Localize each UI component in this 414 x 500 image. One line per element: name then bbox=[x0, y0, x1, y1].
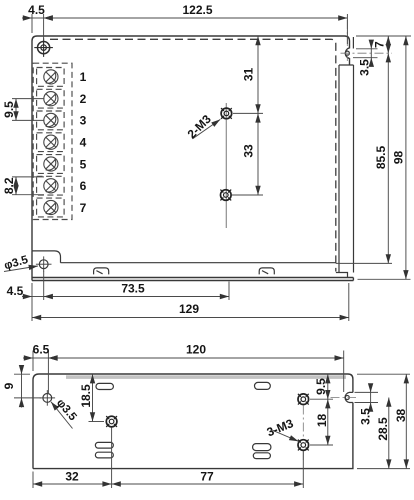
dim 3.5 side extensions bbox=[355, 392, 379, 402]
bottom edge double line bbox=[32, 278, 353, 281]
dim 18.5 line bbox=[92, 374, 94, 421]
bottom-left hole (phi 3.5) bbox=[36, 256, 52, 272]
bottom-left mounting tab bbox=[32, 251, 61, 263]
vent slot lower-right 1 bbox=[253, 444, 271, 451]
svg-text:98: 98 bbox=[392, 151, 406, 165]
svg-text:7: 7 bbox=[80, 201, 87, 215]
svg-text:9.5: 9.5 bbox=[314, 378, 328, 395]
bottom extensions bbox=[33, 428, 303, 489]
dim 9 extensions bbox=[14, 374, 41, 398]
dim 38 line bbox=[405, 374, 407, 468]
dim 28.5 line bbox=[388, 398, 390, 469]
top view left edge lower segment bbox=[31, 251, 33, 281]
svg-text:33: 33 bbox=[242, 144, 256, 158]
dim 73.5 right extension bbox=[228, 282, 230, 301]
side screw hole left bbox=[106, 416, 117, 427]
svg-text:3.5: 3.5 bbox=[359, 408, 373, 425]
svg-text:4.5: 4.5 bbox=[7, 284, 24, 298]
dim 4.5 bottom line bbox=[32, 296, 44, 298]
top-left screw hole target bbox=[34, 38, 53, 57]
vent slot upper-left bbox=[96, 383, 113, 389]
M3 hole upper bbox=[221, 108, 232, 119]
cover flange right side bbox=[339, 65, 354, 273]
dim 9.5 right extension bbox=[310, 398, 333, 400]
svg-text:4: 4 bbox=[80, 136, 87, 150]
right holes centerline bbox=[302, 406, 304, 461]
vent slot upper-right bbox=[255, 382, 271, 389]
svg-text:3: 3 bbox=[80, 114, 87, 128]
svg-text:73.5: 73.5 bbox=[121, 282, 145, 296]
flange bottom step bbox=[336, 273, 348, 278]
svg-text:7: 7 bbox=[373, 41, 387, 48]
svg-text:9.5: 9.5 bbox=[2, 101, 16, 118]
side left hole (phi 3.5) bbox=[40, 390, 56, 406]
dim 18.5 extension bbox=[89, 421, 105, 423]
svg-text:129: 129 bbox=[179, 302, 199, 316]
dim 9.5 extension lines bbox=[12, 99, 44, 121]
dim 73.5 line bbox=[44, 296, 229, 298]
label 3-M3 leader bbox=[272, 430, 299, 442]
svg-text:6: 6 bbox=[80, 179, 87, 193]
dim 3.5 line outside arrows bbox=[370, 49, 372, 58]
svg-text:1: 1 bbox=[80, 70, 87, 84]
2-M3 hole centerline bbox=[225, 103, 227, 228]
svg-text:18: 18 bbox=[315, 414, 329, 428]
vent slot lower-right 2 bbox=[253, 453, 270, 459]
svg-text:120: 120 bbox=[186, 343, 206, 357]
dim 7 line bbox=[387, 36, 389, 53]
terminal 6 screw circle bbox=[44, 179, 58, 193]
terminal 5 square bbox=[37, 155, 65, 174]
svg-text:9: 9 bbox=[2, 382, 16, 389]
side view outline bbox=[33, 374, 353, 469]
svg-text:2: 2 bbox=[80, 92, 87, 106]
top-right tab hole bbox=[345, 51, 349, 55]
terminal 4 screw circle bbox=[44, 135, 58, 149]
svg-text:38: 38 bbox=[394, 409, 408, 423]
svg-text:6.5: 6.5 bbox=[33, 343, 50, 357]
dim 4.5 top dimension line with outside arrows bbox=[32, 17, 44, 19]
dim 85.5 line bbox=[387, 53, 389, 263]
dim 6.5 extensions bbox=[33, 351, 48, 395]
dim 4.5 bottom extensions bbox=[32, 272, 44, 322]
dim 33 line bbox=[257, 113, 259, 195]
dim 32 line bbox=[33, 483, 112, 485]
svg-text:3.5: 3.5 bbox=[357, 59, 371, 76]
terminal 6 square bbox=[37, 176, 65, 195]
dim 18 line bbox=[327, 399, 329, 445]
svg-text:28.5: 28.5 bbox=[376, 417, 390, 441]
dim 6.5 line bbox=[33, 357, 48, 359]
dim 77 line bbox=[112, 483, 304, 485]
dim 9.5 right line bbox=[327, 374, 329, 399]
right top extension line bbox=[356, 35, 411, 37]
dim 8.2 line bbox=[15, 177, 17, 195]
dim 85.5 bottom extension bbox=[336, 262, 392, 264]
vent slot lower-left 2 bbox=[95, 452, 113, 458]
terminal 2 square bbox=[37, 89, 65, 108]
svg-text:5: 5 bbox=[80, 157, 87, 171]
dim 9 line outside arrows bbox=[21, 374, 23, 398]
terminal block outer dashed body bbox=[33, 63, 72, 219]
terminal 7 screw circle bbox=[44, 200, 58, 214]
svg-text:32: 32 bbox=[65, 470, 79, 484]
bottom fold line bbox=[61, 262, 336, 264]
svg-text:31: 31 bbox=[242, 68, 256, 82]
side screw hole right upper bbox=[298, 394, 309, 405]
side view top edge shadow bbox=[66, 375, 346, 379]
dim 98 bottom extension bbox=[358, 278, 411, 280]
top-right corner notch edge bbox=[352, 37, 354, 49]
dim 38 extensions bbox=[357, 374, 410, 468]
svg-text:122.5: 122.5 bbox=[182, 3, 212, 17]
dim 3.5 side line outside arrows bbox=[370, 392, 372, 402]
terminal 1 screw circle bbox=[44, 70, 58, 84]
dim 129 line bbox=[32, 317, 349, 319]
dim 33 extension bbox=[232, 194, 263, 196]
hidden cover edge (dashed top) bbox=[50, 39, 336, 271]
dim 9.5 line bbox=[15, 99, 17, 121]
dim 122.5 right extension bbox=[346, 14, 348, 44]
svg-text:77: 77 bbox=[200, 470, 214, 484]
vent slot lower-left 1 bbox=[95, 442, 113, 448]
dim 129 right extension bbox=[348, 283, 350, 321]
dim 4.5 top extension lines bbox=[32, 14, 44, 41]
M3 hole lower bbox=[220, 190, 231, 201]
label 2-M3 leader arrow bbox=[193, 119, 221, 138]
bottom louver left bbox=[94, 268, 109, 275]
terminal 3 screw circle bbox=[44, 113, 58, 127]
dim 120 line bbox=[48, 357, 343, 359]
top view chassis outline bbox=[32, 36, 350, 251]
dim 18 extension bbox=[310, 444, 333, 446]
dim 3.5 extension lines bbox=[353, 49, 378, 58]
side screw hole right lower bbox=[298, 440, 309, 451]
dim 31 extension bbox=[233, 112, 263, 114]
svg-text:4.5: 4.5 bbox=[28, 3, 45, 17]
right tab hole centerline bbox=[331, 397, 357, 399]
terminal 1 square bbox=[37, 68, 65, 87]
terminal 3 square bbox=[37, 111, 65, 130]
svg-text:18.5: 18.5 bbox=[79, 384, 93, 408]
dim 122.5 line bbox=[44, 17, 348, 19]
terminal 5 screw circle bbox=[44, 157, 58, 171]
right tab hole bbox=[345, 396, 349, 400]
svg-text:8.2: 8.2 bbox=[2, 177, 16, 194]
terminal 7 square bbox=[37, 198, 65, 217]
top-right tab hole centerlines bbox=[341, 20, 393, 61]
terminal 2 screw circle bbox=[44, 92, 58, 106]
dim 98 line bbox=[405, 36, 407, 279]
dim 120 right extension bbox=[343, 351, 345, 393]
dim 8.2 extension lines bbox=[12, 177, 44, 195]
bottom louver right bbox=[259, 268, 274, 275]
svg-text:85.5: 85.5 bbox=[374, 145, 388, 169]
dim 31 line bbox=[257, 36, 259, 113]
label phi3.5 leader bbox=[4, 266, 38, 272]
label phi3.5 side leader bbox=[51, 402, 73, 429]
right tab slot bbox=[345, 392, 353, 402]
terminal 4 square bbox=[37, 133, 65, 152]
